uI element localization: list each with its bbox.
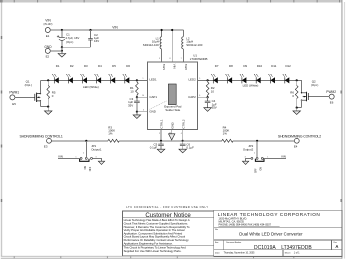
junction LED1 [136,79,138,81]
wire to E2 node [61,47,63,51]
svg-text:ON: ON [85,166,87,170]
transistor Q1 [25,80,42,107]
svg-text:E5: E5 [12,102,16,106]
svg-text:D4: D4 [98,64,102,68]
ground input [58,51,66,57]
svg-text:LTC CONFIDENTIAL - FOR CUSTOME: LTC CONFIDENTIAL - FOR CUSTOMER USE ONLY [126,206,208,209]
junction GND pin [136,111,138,113]
svg-text:7: 7 [181,58,182,60]
svg-text:VIN: VIN [173,64,177,69]
svg-text:SD3112-100: SD3112-100 [186,43,202,47]
svg-text:D11: D11 [271,64,276,68]
LED D1 [52,64,60,84]
capacitor C2 [88,30,99,47]
svg-text:CTRL2: CTRL2 [181,119,185,128]
svg-text:D3: D3 [84,64,88,68]
terminal E5 PWM1 [9,91,19,106]
capacitor C3 [128,97,140,112]
ground IC bottom [169,134,175,140]
svg-text:1 of 1: 1 of 1 [294,252,300,254]
wire E1 to VIN rail [50,29,62,31]
border frame left band [1,3,2,257]
svg-text:Thursday, November 10, 2005: Thursday, November 10, 2005 [224,251,256,254]
ground C6 [179,149,187,153]
svg-text:A: A [335,244,338,249]
svg-text:E2: E2 [46,55,50,59]
svg-text:3: 3 [143,110,144,112]
svg-text:GND: GND [170,122,174,128]
svg-text:LED2: LED2 [188,78,196,82]
svg-text:VIN: VIN [281,154,286,158]
ground JP1 [98,161,104,164]
wire CTRL2 to R4 [183,140,222,142]
svg-text:D5: D5 [112,64,116,68]
junction R5 top [47,79,49,81]
LED D8 [225,64,233,84]
pin 11 GND pad stub [169,129,172,134]
svg-text:D7: D7 [215,64,219,68]
svg-text:1: 1 [143,78,144,80]
wire PWM1 to Q1 gate [15,96,35,98]
resistor R5 [47,80,56,106]
LED D6 [123,64,131,84]
ground C4 [204,108,212,112]
wire C1/C2 bottom rail [62,46,91,48]
pin 5 LED2 stub [197,78,207,81]
svg-text:1%: 1% [223,132,228,136]
terminal E6 PWM2 [326,90,336,105]
svg-text:LINEAR TECHNOLOGY CORPORATION: LINEAR TECHNOLOGY CORPORATION [218,212,321,217]
wire VIN pin [171,30,173,62]
junction R5 bottom [47,106,49,108]
junction L1 top [161,29,163,31]
border frame top band [0,0,342,3]
pin 6 CAP2 stub [197,95,207,97]
svg-text:GND: GND [149,110,155,114]
pin 4 CTRL2 stub [181,129,183,140]
LED D11 [268,64,276,84]
svg-text:0.1µF: 0.1µF [186,146,194,150]
resistor R3 [108,125,119,142]
svg-text:SW1: SW1 [162,64,166,71]
pin 1 LED1 stub [137,78,148,81]
LED D12 [283,64,292,84]
wire LED2 chain [208,80,302,93]
exposed pad [164,84,182,112]
svg-text:Output2: Output2 [243,147,254,151]
wire LED1 chain [40,79,136,81]
svg-text:9: 9 [159,58,160,60]
svg-text:Solder Side: Solder Side [165,108,180,112]
svg-text:(3V-10V): (3V-10V) [44,24,53,26]
svg-text:OFF: OFF [255,168,257,173]
svg-text:Dual White LED Driver Converte: Dual White LED Driver Converter [239,232,303,237]
junction at C1 top [61,29,63,31]
node VIN stub JP2 [263,154,286,158]
ground C3/GND pin [133,112,141,119]
dashed link exposed pad to GND [150,101,168,110]
svg-text:Size: Size [215,242,219,244]
svg-text:SD3112-100: SD3112-100 [143,43,159,47]
junction C1 bottom [61,46,63,48]
LED D5 [109,64,117,84]
svg-text:E6: E6 [330,101,334,105]
pin 2 CTRL1 stub [159,129,161,140]
junction R6 bottom [296,107,298,109]
node VIN stub JP1 [58,154,80,158]
svg-text:2: 2 [254,153,255,155]
terminal E1 VIN [44,18,53,38]
LED D3 [80,64,88,84]
inductor L2 [182,30,203,62]
svg-text:Supplied For Use With Linear T: Supplied For Use With Linear Technology … [124,249,182,253]
terminal E2 GND [44,45,52,59]
wire R3 to CTRL1 [119,140,182,142]
svg-text:2: 2 [83,153,84,155]
svg-text:Document Number: Document Number [226,241,241,244]
jumper JP1 [75,141,101,172]
wire VIN rail [62,29,183,31]
resistor R2 [206,80,215,97]
svg-text:Title: Title [215,228,218,231]
wire JP2 pin3 to ground [246,158,251,161]
svg-text:0.1µF: 0.1µF [150,146,158,150]
svg-text:VIN: VIN [45,18,51,22]
LED D10 [254,64,263,84]
svg-text:CTRL1: CTRL1 [160,119,164,128]
junction CAP2 [207,96,209,98]
junction JP2 drop [256,140,258,142]
wire R4 to E4 [233,140,294,142]
svg-text:VIN: VIN [112,26,118,30]
ground JP2 [242,161,248,164]
svg-text:35V: 35V [212,106,217,110]
svg-text:SHDN/DIMMING CONTROL2: SHDN/DIMMING CONTROL2 [278,135,321,139]
svg-text:PWM2: PWM2 [326,90,336,94]
svg-text:D12: D12 [285,64,291,68]
ground R5/Q1 [44,107,52,115]
junction CTRL2/C6 [182,140,184,142]
svg-text:CAP1: CAP1 [149,95,157,99]
svg-text:Output1: Output1 [91,147,102,151]
svg-text:1%: 1% [108,132,113,136]
svg-text:4: 4 [181,133,182,135]
svg-text:D2: D2 [70,64,74,68]
title block [214,210,342,256]
wire PWM2 to Q2 gate [308,96,329,98]
LED D2 [66,64,74,84]
svg-text:LED (White): LED (White) [243,83,259,87]
resistor R6 [290,80,298,107]
svg-text:35V: 35V [128,103,133,107]
junction E2 node [61,50,63,52]
svg-text:6: 6 [199,95,200,97]
capacitor C5 [150,141,164,150]
svg-text:Sheet: Sheet [285,251,291,254]
svg-text:2: 2 [159,133,160,135]
border frame right line [341,0,343,259]
wire E2 to node [50,50,62,52]
svg-text:(Opt.): (Opt.) [311,83,318,87]
op-amp U1 LT3497EDDB box [148,53,208,129]
svg-text:SW2: SW2 [184,64,188,71]
svg-text:PWM1: PWM1 [9,91,19,95]
svg-text:(Opt.): (Opt.) [66,40,73,44]
terminal E4 [294,138,299,148]
junction at C2 top [89,29,91,31]
svg-text:E4: E4 [294,144,298,148]
ground C5 [157,149,165,153]
resistor R4 [222,125,233,142]
wire JP1 pin3 to ground [92,158,101,161]
svg-text:PHONE: (408) 954-8400 FAX (4: PHONE: (408) 954-8400 FAX (408) 434-0507 [219,223,272,227]
pin 10 CAP1 stub [137,95,148,97]
svg-text:E3: E3 [44,144,48,148]
svg-text:LED (White): LED (White) [83,85,99,89]
svg-text:5: 5 [199,78,200,80]
page edge shadow right [344,2,345,259]
svg-text:10: 10 [211,90,215,94]
wire E3 to R3 [51,140,108,142]
svg-text:LT3497EDDB: LT3497EDDB [190,57,208,61]
svg-text:16V: 16V [94,39,99,43]
svg-text:8: 8 [170,58,171,60]
svg-text:VIN: VIN [58,154,63,158]
svg-text:Date:: Date: [215,251,221,254]
svg-text:10: 10 [130,90,134,94]
svg-text:D6: D6 [126,64,130,68]
svg-text:(Opt.): (Opt.) [25,83,32,87]
svg-text:SHDN/DIMMING CONTROL1: SHDN/DIMMING CONTROL1 [20,135,63,139]
junction R6 top [296,79,298,81]
svg-text:LED1: LED1 [149,78,157,82]
pin 3 GND stub [137,110,148,112]
capacitor C4 [205,97,217,109]
svg-text:CAP2: CAP2 [188,95,196,99]
jumper JP2 [243,141,268,173]
capacitor C1 [57,30,79,47]
customer notice box [123,211,214,256]
junction CAP1 [136,96,138,98]
svg-text:OFF: OFF [90,166,92,171]
svg-text:D8: D8 [229,64,233,68]
junction JP1 drop [85,140,87,142]
svg-text:D9: D9 [243,64,247,68]
ground R6/Q2 [293,108,301,115]
resistor R1 [130,80,138,97]
junction CTRL1/C5 [160,140,162,142]
transistor Q2 [301,80,319,108]
svg-text:D1: D1 [56,64,60,68]
svg-text:E1: E1 [46,34,50,38]
svg-text:D10: D10 [257,64,263,68]
junction LED2 [207,79,209,81]
svg-text:10: 10 [142,95,144,97]
capacitor C6 [180,141,194,150]
LED D9 [240,64,248,84]
LED D7 [211,64,219,84]
border frame bottom band [1,256,342,259]
wire Q2 source to gnd node [297,107,302,109]
svg-text:ON: ON [261,167,263,171]
inductor L1 [143,30,162,62]
terminal E3 [44,138,51,148]
LED D4 [94,64,102,84]
junction VIN pin top [171,29,173,31]
wire Q1 source to gnd node [40,106,48,108]
